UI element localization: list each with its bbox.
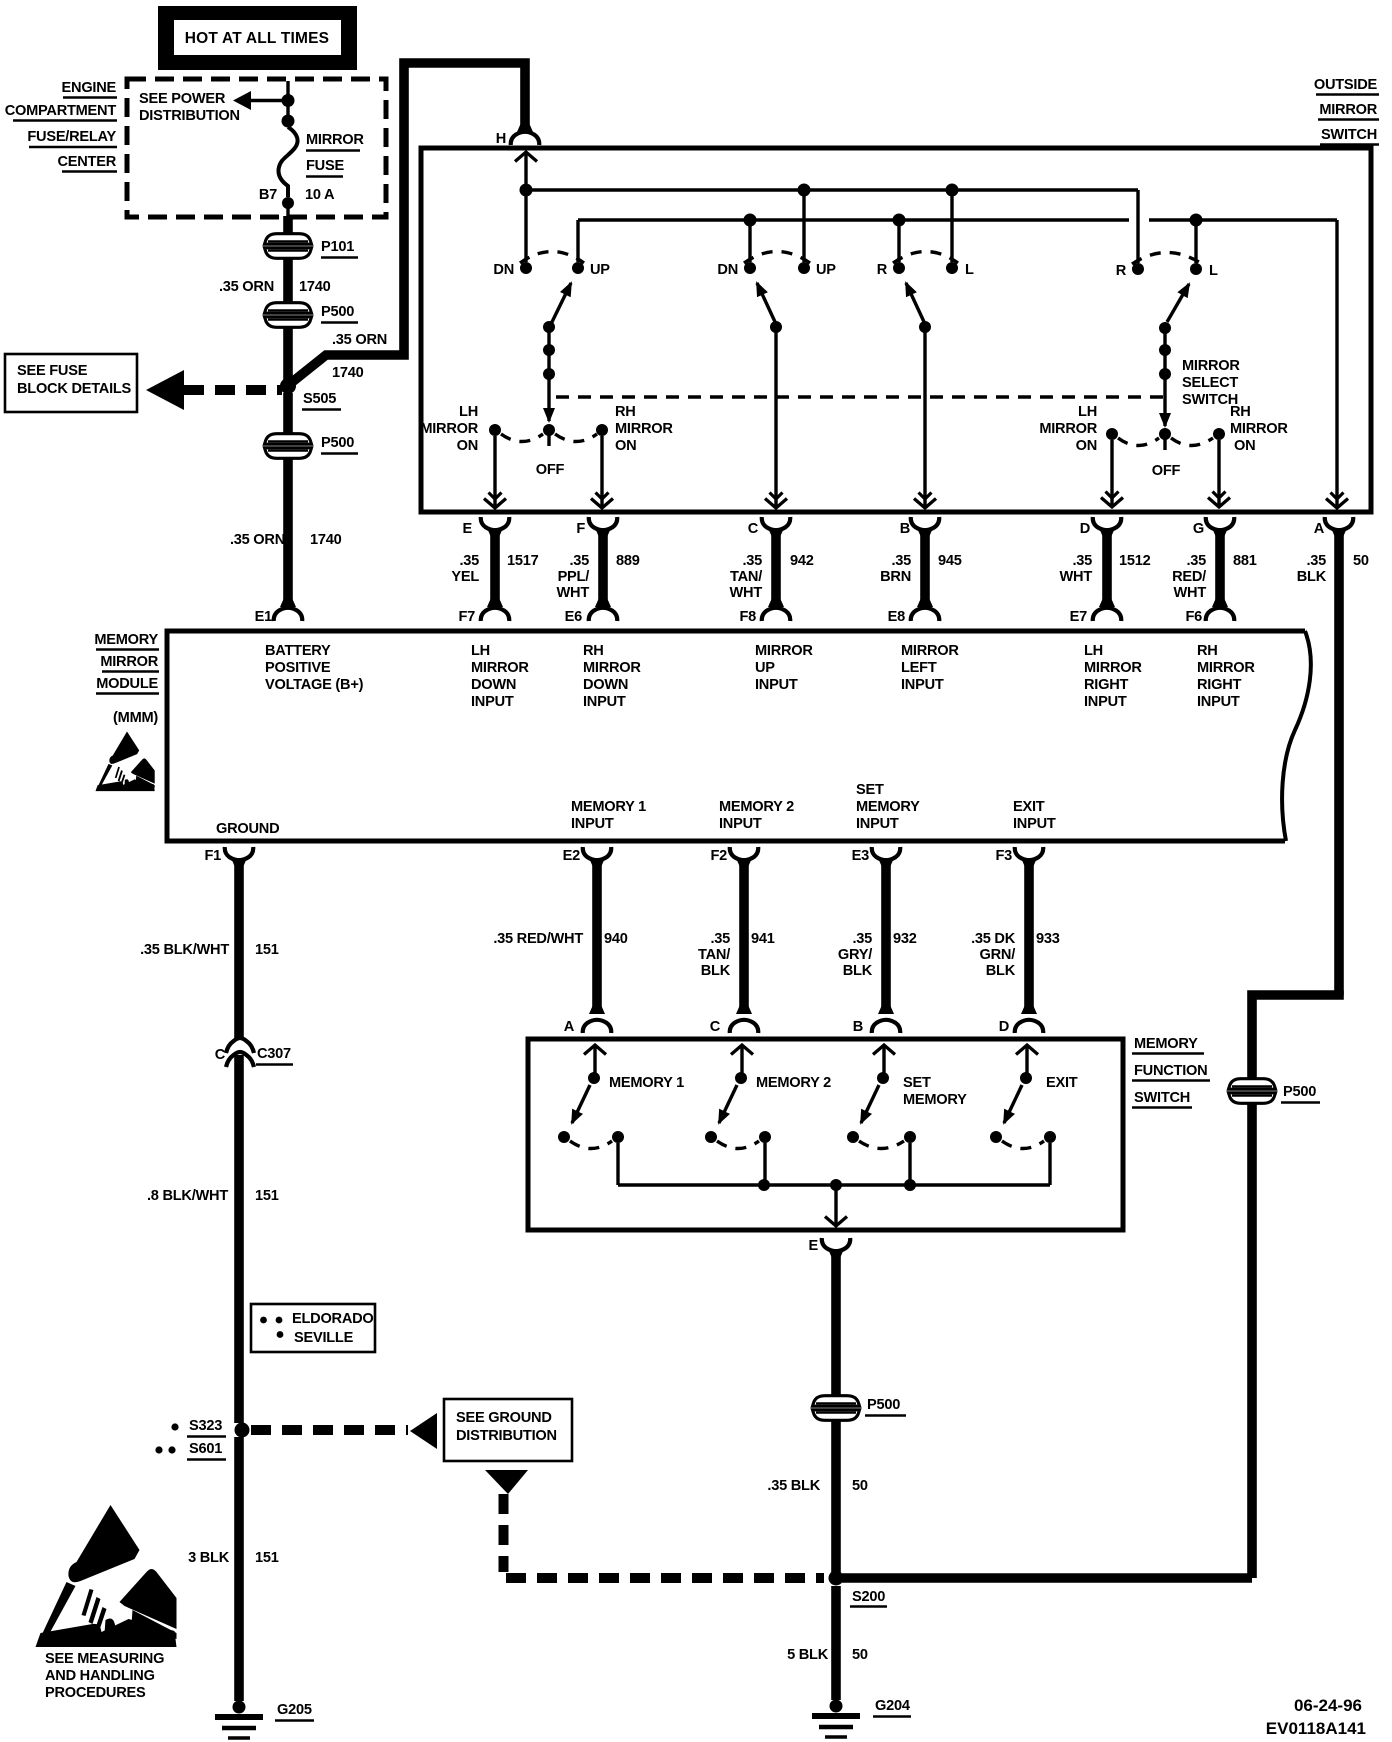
svg-text:.35: .35 — [569, 553, 589, 569]
svg-text:ON: ON — [1234, 438, 1255, 454]
svg-text:MIRROR: MIRROR — [583, 660, 641, 676]
svg-text:INPUT: INPUT — [755, 677, 798, 693]
svg-text:881: 881 — [1233, 553, 1257, 569]
svg-text:TAN/: TAN/ — [730, 569, 762, 585]
svg-text:F1: F1 — [204, 848, 221, 864]
svg-text:MIRROR: MIRROR — [1230, 421, 1288, 437]
svg-text:.35 ORN: .35 ORN — [332, 332, 387, 348]
svg-text:.35: .35 — [852, 931, 872, 947]
svg-text:L: L — [1209, 263, 1218, 279]
svg-text:P500: P500 — [1283, 1084, 1316, 1100]
svg-text:P101: P101 — [321, 239, 354, 255]
svg-text:1517: 1517 — [507, 553, 539, 569]
svg-text:RIGHT: RIGHT — [1084, 677, 1128, 693]
svg-text:BLK: BLK — [1297, 569, 1327, 585]
svg-text:OFF: OFF — [536, 462, 565, 478]
svg-text:.35: .35 — [1072, 553, 1092, 569]
svg-text:MIRROR: MIRROR — [1197, 660, 1255, 676]
svg-text:DN: DN — [493, 262, 514, 278]
svg-text:MIRROR: MIRROR — [1039, 421, 1097, 437]
svg-text:.35: .35 — [710, 931, 730, 947]
svg-text:BLOCK DETAILS: BLOCK DETAILS — [17, 381, 132, 397]
svg-text:GRN/: GRN/ — [980, 947, 1016, 963]
svg-text:.35 RED/WHT: .35 RED/WHT — [493, 931, 583, 947]
svg-text:E8: E8 — [888, 609, 905, 625]
svg-text:MEMORY: MEMORY — [94, 632, 158, 648]
svg-text:D: D — [999, 1019, 1009, 1035]
svg-text:.8 BLK/WHT: .8 BLK/WHT — [147, 1188, 228, 1204]
svg-text:SWITCH: SWITCH — [1321, 127, 1377, 143]
svg-text:C307: C307 — [257, 1046, 291, 1062]
svg-text:YEL: YEL — [451, 569, 479, 585]
svg-text:FUSE/RELAY: FUSE/RELAY — [27, 129, 116, 145]
svg-text:SEVILLE: SEVILLE — [294, 1330, 354, 1346]
svg-text:G204: G204 — [875, 1698, 911, 1714]
svg-text:E7: E7 — [1070, 609, 1087, 625]
svg-text:INPUT: INPUT — [901, 677, 944, 693]
svg-text:E2: E2 — [563, 848, 580, 864]
svg-text:WHT: WHT — [1174, 585, 1207, 601]
svg-text:MIRROR: MIRROR — [471, 660, 529, 676]
svg-text:POSITIVE: POSITIVE — [265, 660, 331, 676]
svg-text:933: 933 — [1036, 931, 1060, 947]
svg-text:E6: E6 — [565, 609, 582, 625]
svg-text:BLK: BLK — [701, 963, 731, 979]
svg-text:RIGHT: RIGHT — [1197, 677, 1241, 693]
svg-text:GROUND: GROUND — [216, 821, 279, 837]
svg-text:LH: LH — [459, 404, 478, 420]
svg-text:F7: F7 — [458, 609, 475, 625]
svg-text:E3: E3 — [852, 848, 869, 864]
svg-text:MIRROR: MIRROR — [615, 421, 673, 437]
svg-text:ENGINE: ENGINE — [62, 80, 117, 96]
svg-text:50: 50 — [1353, 553, 1369, 569]
svg-text:ON: ON — [1076, 438, 1097, 454]
svg-text:SELECT: SELECT — [1182, 375, 1238, 391]
svg-text:OUTSIDE: OUTSIDE — [1314, 77, 1378, 93]
svg-text:P500: P500 — [321, 304, 354, 320]
svg-text:P500: P500 — [867, 1397, 900, 1413]
svg-text:.35: .35 — [1186, 553, 1206, 569]
svg-text:INPUT: INPUT — [856, 816, 899, 832]
svg-text:G: G — [1193, 521, 1204, 537]
svg-text:MODULE: MODULE — [96, 676, 158, 692]
svg-text:SEE FUSE: SEE FUSE — [17, 363, 88, 379]
svg-text:.35: .35 — [742, 553, 762, 569]
svg-text:MEMORY: MEMORY — [856, 799, 920, 815]
svg-text:D: D — [1080, 521, 1090, 537]
svg-text:932: 932 — [893, 931, 917, 947]
svg-text:S200: S200 — [852, 1589, 885, 1605]
svg-text:RH: RH — [1230, 404, 1251, 420]
svg-text:INPUT: INPUT — [571, 816, 614, 832]
svg-text:ON: ON — [457, 438, 478, 454]
svg-text:MIRROR: MIRROR — [1319, 102, 1377, 118]
svg-text:RH: RH — [615, 404, 636, 420]
svg-text:L: L — [965, 262, 974, 278]
svg-text:G205: G205 — [277, 1702, 312, 1718]
svg-text:.35 ORN: .35 ORN — [219, 279, 274, 295]
svg-text:INPUT: INPUT — [471, 694, 514, 710]
svg-text:H: H — [496, 131, 506, 147]
svg-text:WHT: WHT — [730, 585, 763, 601]
svg-text:RED/: RED/ — [1172, 569, 1206, 585]
svg-text:COMPARTMENT: COMPARTMENT — [5, 103, 117, 119]
svg-text:B: B — [853, 1019, 863, 1035]
svg-text:FUSE: FUSE — [306, 158, 344, 174]
svg-text:.35 ORN: .35 ORN — [230, 532, 285, 548]
svg-text:MEMORY 2: MEMORY 2 — [756, 1075, 831, 1091]
svg-text:INPUT: INPUT — [583, 694, 626, 710]
svg-text:ELDORADO: ELDORADO — [292, 1311, 374, 1327]
svg-text:RH: RH — [583, 643, 604, 659]
svg-text:SET: SET — [856, 782, 884, 798]
svg-text:MEMORY 2: MEMORY 2 — [719, 799, 794, 815]
svg-text:SEE GROUND: SEE GROUND — [456, 1410, 552, 1426]
svg-text:1740: 1740 — [332, 365, 364, 381]
svg-text:10 A: 10 A — [305, 187, 335, 203]
svg-text:S601: S601 — [189, 1441, 222, 1457]
svg-text:945: 945 — [938, 553, 962, 569]
svg-text:INPUT: INPUT — [719, 816, 762, 832]
svg-text:MIRROR: MIRROR — [306, 132, 364, 148]
svg-text:.35: .35 — [1306, 553, 1326, 569]
svg-text:UP: UP — [755, 660, 775, 676]
svg-text:DISTRIBUTION: DISTRIBUTION — [139, 108, 240, 124]
svg-text:942: 942 — [790, 553, 814, 569]
svg-text:S323: S323 — [189, 1418, 222, 1434]
svg-text:F: F — [576, 521, 585, 537]
svg-text:A: A — [1314, 521, 1325, 537]
svg-text:C: C — [710, 1019, 721, 1035]
svg-text:.35 DK: .35 DK — [971, 931, 1016, 947]
svg-text:5 BLK: 5 BLK — [787, 1647, 829, 1663]
svg-text:INPUT: INPUT — [1197, 694, 1240, 710]
svg-text:BATTERY: BATTERY — [265, 643, 331, 659]
svg-text:1740: 1740 — [310, 532, 342, 548]
svg-text:FUNCTION: FUNCTION — [1134, 1063, 1207, 1079]
svg-text:889: 889 — [616, 553, 640, 569]
svg-text:RH: RH — [1197, 643, 1218, 659]
svg-text:F8: F8 — [739, 609, 756, 625]
svg-text:(MMM): (MMM) — [113, 710, 158, 726]
svg-text:1512: 1512 — [1119, 553, 1151, 569]
svg-text:EXIT: EXIT — [1046, 1075, 1078, 1091]
svg-text:UP: UP — [816, 262, 836, 278]
svg-text:MIRROR: MIRROR — [100, 654, 158, 670]
svg-text:151: 151 — [255, 1188, 279, 1204]
svg-text:EXIT: EXIT — [1013, 799, 1045, 815]
svg-text:LH: LH — [1084, 643, 1103, 659]
svg-text:.35: .35 — [459, 553, 479, 569]
svg-text:LH: LH — [471, 643, 490, 659]
svg-text:HOT AT ALL TIMES: HOT AT ALL TIMES — [185, 30, 329, 47]
svg-text:OFF: OFF — [1152, 463, 1181, 479]
svg-text:3 BLK: 3 BLK — [188, 1550, 230, 1566]
svg-text:F6: F6 — [1185, 609, 1202, 625]
svg-text:F3: F3 — [995, 848, 1012, 864]
svg-text:LH: LH — [1078, 404, 1097, 420]
svg-text:S505: S505 — [303, 391, 336, 407]
svg-text:INPUT: INPUT — [1013, 816, 1056, 832]
svg-text:R: R — [1116, 263, 1127, 279]
svg-text:GRY/: GRY/ — [838, 947, 872, 963]
svg-text:941: 941 — [751, 931, 775, 947]
svg-text:E: E — [463, 521, 473, 537]
svg-text:WHT: WHT — [557, 585, 590, 601]
svg-text:50: 50 — [852, 1478, 868, 1494]
svg-text:SEE POWER: SEE POWER — [139, 91, 226, 107]
svg-text:1740: 1740 — [299, 279, 331, 295]
svg-text:.35: .35 — [891, 553, 911, 569]
svg-text:E1: E1 — [255, 609, 272, 625]
svg-text:MIRROR: MIRROR — [901, 643, 959, 659]
svg-text:DOWN: DOWN — [471, 677, 516, 693]
svg-text:SET: SET — [903, 1075, 931, 1091]
svg-text:EV0118A141: EV0118A141 — [1266, 1719, 1366, 1738]
svg-text:DN: DN — [717, 262, 738, 278]
svg-text:R: R — [877, 262, 888, 278]
svg-text:MIRROR: MIRROR — [420, 421, 478, 437]
svg-text:BRN: BRN — [880, 569, 911, 585]
svg-text:151: 151 — [255, 1550, 279, 1566]
svg-text:B: B — [900, 521, 910, 537]
svg-text:PROCEDURES: PROCEDURES — [45, 1685, 146, 1701]
svg-text:B7: B7 — [259, 187, 277, 203]
svg-text:INPUT: INPUT — [1084, 694, 1127, 710]
svg-text:MIRROR: MIRROR — [1084, 660, 1142, 676]
svg-text:VOLTAGE (B+): VOLTAGE (B+) — [265, 677, 364, 693]
svg-text:P500: P500 — [321, 435, 354, 451]
svg-text:DOWN: DOWN — [583, 677, 628, 693]
svg-text:C: C — [215, 1047, 226, 1063]
svg-text:MEMORY: MEMORY — [903, 1092, 967, 1108]
svg-text:F2: F2 — [710, 848, 727, 864]
svg-text:MIRROR: MIRROR — [1182, 358, 1240, 374]
svg-text:BLK: BLK — [986, 963, 1016, 979]
svg-text:CENTER: CENTER — [58, 154, 117, 170]
svg-text:A: A — [564, 1019, 575, 1035]
svg-text:PPL/: PPL/ — [558, 569, 590, 585]
svg-text:06-24-96: 06-24-96 — [1294, 1696, 1362, 1715]
svg-text:WHT: WHT — [1060, 569, 1093, 585]
svg-text:TAN/: TAN/ — [698, 947, 730, 963]
svg-text:LEFT: LEFT — [901, 660, 937, 676]
svg-text:C: C — [748, 521, 759, 537]
svg-text:E: E — [809, 1238, 819, 1254]
svg-text:DISTRIBUTION: DISTRIBUTION — [456, 1428, 557, 1444]
svg-text:.35 BLK/WHT: .35 BLK/WHT — [140, 942, 229, 958]
svg-text:940: 940 — [604, 931, 628, 947]
svg-text:MIRROR: MIRROR — [755, 643, 813, 659]
svg-text:MEMORY 1: MEMORY 1 — [609, 1075, 684, 1091]
svg-text:BLK: BLK — [843, 963, 873, 979]
svg-text:AND HANDLING: AND HANDLING — [45, 1668, 155, 1684]
svg-text:151: 151 — [255, 942, 279, 958]
svg-text:ON: ON — [615, 438, 636, 454]
svg-text:MEMORY 1: MEMORY 1 — [571, 799, 646, 815]
svg-text:UP: UP — [590, 262, 610, 278]
svg-text:SEE MEASURING: SEE MEASURING — [45, 1651, 164, 1667]
svg-text:SWITCH: SWITCH — [1134, 1090, 1190, 1106]
svg-text:50: 50 — [852, 1647, 868, 1663]
svg-text:MEMORY: MEMORY — [1134, 1036, 1198, 1052]
svg-text:.35 BLK: .35 BLK — [767, 1478, 820, 1494]
